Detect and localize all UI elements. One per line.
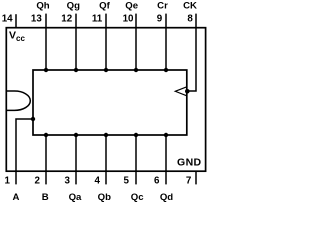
svg-text:A: A: [13, 192, 20, 203]
svg-text:14: 14: [2, 13, 13, 24]
svg-text:8: 8: [187, 13, 193, 24]
junction dot pin 5: [134, 133, 138, 137]
svg-text:1: 1: [5, 176, 11, 187]
pin 13 wire (Qh): [45, 14, 47, 70]
svg-text:Qa: Qa: [69, 192, 82, 203]
pin 2 wire (B): [45, 135, 47, 184]
junction dot pin 1 (A input): [31, 117, 35, 121]
junction dot pin 12: [74, 68, 78, 72]
junction dot pin 2: [44, 133, 48, 137]
svg-text:3: 3: [65, 176, 71, 187]
svg-text:Qb: Qb: [98, 192, 111, 203]
svg-text:6: 6: [154, 176, 160, 187]
svg-text:Qe: Qe: [125, 1, 138, 12]
pin 10 wire (Qe): [135, 14, 137, 70]
junction dot pin 3: [74, 133, 78, 137]
svg-text:11: 11: [92, 13, 103, 24]
svg-text:Qd: Qd: [160, 192, 173, 203]
pin 7 GND stub: [195, 171, 197, 185]
svg-text:2: 2: [35, 176, 41, 187]
AND gate G1 (serial inputs A·B): [7, 91, 31, 110]
svg-text:9: 9: [157, 13, 163, 24]
pin 8 wire (CK): [188, 14, 197, 91]
svg-text:10: 10: [123, 13, 134, 24]
svg-text:12: 12: [61, 13, 72, 24]
junction dot pin 9: [164, 68, 168, 72]
svg-text:4: 4: [95, 176, 101, 187]
pin 4 wire (Qb): [105, 135, 107, 184]
svg-text:Qh: Qh: [36, 1, 49, 12]
svg-text:Cr: Cr: [157, 1, 168, 12]
junction dot pin 11: [104, 68, 108, 72]
pin 12 wire (Qg): [75, 14, 77, 70]
svg-text:B: B: [42, 192, 49, 203]
pin 11 wire (Qf): [105, 14, 107, 70]
svg-text:13: 13: [31, 13, 42, 24]
junction dot pin 6: [164, 133, 168, 137]
pin 9 wire (Cr): [165, 14, 167, 70]
svg-text:7: 7: [186, 176, 192, 187]
svg-text:Vcc: Vcc: [9, 30, 25, 43]
pin 5 wire (Qc): [135, 135, 137, 184]
internal shift-register block: [33, 70, 187, 135]
junction dot pin 4: [104, 133, 108, 137]
svg-text:Qf: Qf: [99, 1, 110, 12]
pin 1 wire (A): [16, 119, 33, 184]
clock edge triangle (dynamic input indicator): [175, 87, 187, 96]
svg-text:GND: GND: [177, 156, 202, 168]
pin 3 wire (Qa): [75, 135, 77, 184]
junction dot CK input: [185, 89, 190, 94]
svg-text:5: 5: [124, 176, 130, 187]
svg-text:CK: CK: [183, 1, 197, 12]
pin 14 Vcc stub: [15, 14, 17, 28]
svg-text:Qc: Qc: [131, 192, 144, 203]
pin 6 wire (Qd): [165, 135, 167, 184]
IC package outline U1 (DIP-14): [6, 28, 205, 172]
junction dot pin 10: [134, 68, 138, 72]
junction dot pin 13: [44, 68, 48, 72]
svg-text:Qg: Qg: [67, 1, 80, 12]
